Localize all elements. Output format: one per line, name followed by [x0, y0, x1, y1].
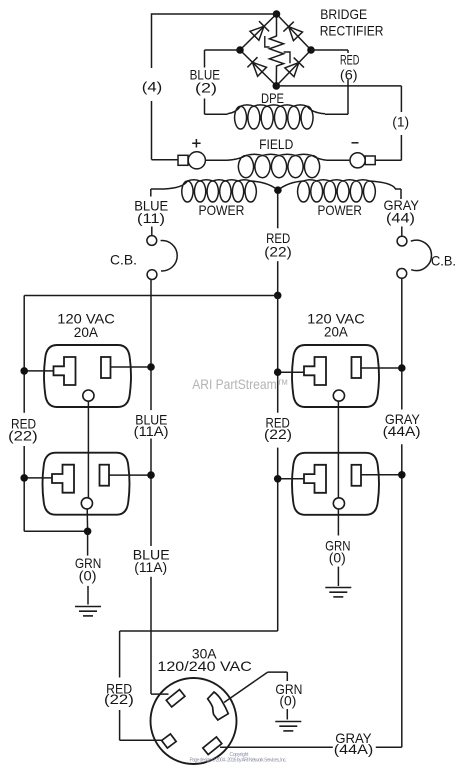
wire J4 ground down: [337, 509, 339, 536]
wire 4 vertical lower: [151, 101, 153, 160]
svg-text:RECTIFIER: RECTIFIER: [320, 22, 384, 38]
wire ground horizontal: [268, 671, 288, 673]
outlet J4 (right bottom 120V 20A) hot slot: [352, 465, 362, 486]
outlet J3 (right top 120V 20A) hot slot: [352, 357, 362, 378]
wire 4 to FIELD + terminal: [152, 159, 179, 161]
wire GRN right to ground: [337, 567, 339, 586]
FIELD - terminal square: [365, 156, 375, 165]
inductor FIELD coil: [227, 154, 327, 178]
resistor right tap hook: [284, 52, 290, 63]
wire FIELD coil to - terminal: [327, 159, 349, 161]
receptacle slot bottom-center: [203, 737, 222, 755]
wire 2 to DPE coil: [205, 113, 228, 115]
receptacle slot bottom-left (hot Y): [162, 734, 177, 748]
wire 1: bridge - to right: [276, 85, 401, 87]
svg-text:FIELD: FIELD: [259, 137, 293, 152]
wire POWER right coil exit: [369, 181, 401, 189]
svg-text:(2): (2): [195, 81, 217, 96]
svg-text:C.B.: C.B.: [431, 254, 456, 269]
svg-text:120/240 VAC: 120/240 VAC: [157, 659, 252, 674]
circuit breaker CB2 arc: [411, 240, 432, 270]
ground symbol left: [75, 606, 101, 608]
wire RED left rail upper: [23, 296, 25, 413]
svg-text:(22): (22): [264, 245, 292, 260]
wire center rail to J3 neutral: [278, 371, 304, 373]
svg-text:POWER: POWER: [199, 203, 245, 218]
outlet J2 (left bottom 120V 20A) outline: [43, 453, 130, 515]
svg-text:(6): (6): [340, 67, 358, 82]
node on RED rail at J2: [20, 474, 28, 482]
diode D2 (top-right edge, cathode to + node): [283, 22, 293, 32]
circuit breaker CB2 top contact: [397, 236, 407, 246]
outlet J1 (left top 120V 20A) hot slot: [101, 357, 111, 378]
wire BLUE 11A rail upper: [150, 280, 152, 411]
node: bridge AC right vertex: [307, 46, 315, 54]
wire RED 22 center rail upper: [277, 296, 279, 413]
svg-text:(0): (0): [279, 694, 296, 709]
receptacle slot top-left (hot X): [166, 690, 185, 707]
wire RED 22 down lower: [119, 710, 121, 740]
svg-text:(11): (11): [137, 211, 165, 226]
diode D1 (top-left edge, cathode to + node): [259, 21, 269, 31]
svg-text:(44A): (44A): [334, 742, 374, 757]
resistor left tap hook: [265, 36, 270, 47]
diode D4 (bottom-right edge): [294, 58, 304, 68]
FIELD - terminal circle: [350, 153, 365, 168]
outlet J2 (left bottom 120V 20A) ground pin hole: [81, 498, 92, 509]
wire RED 22 from center tap: [277, 194, 279, 229]
node: power winding center tap: [274, 186, 282, 194]
svg-text:(44A): (44A): [383, 424, 421, 439]
svg-text:ARI PartStream™: ARI PartStream™: [192, 377, 289, 392]
wire RED left rail lower: [23, 446, 25, 531]
wire GRAY 44A bottom left part: [220, 746, 333, 748]
wire J1 hot to BLUE rail: [111, 366, 152, 368]
outlet J3 (right top 120V 20A) outline: [292, 345, 379, 407]
wire GRAY 44A bottom right part: [376, 746, 402, 748]
wire GRN left to ground: [87, 586, 89, 605]
receptacle slot top-right (neutral, L-shaped): [208, 692, 229, 720]
FIELD + terminal circle: [188, 152, 205, 169]
wire BLUE 11 upper: [150, 189, 152, 197]
svg-text:Page design © 2004 - 2016 by A: Page design © 2004 - 2016 by ARI Network…: [190, 756, 287, 763]
circuit breaker CB1 bottom contact: [147, 270, 157, 280]
wire 4 vertical upper: [151, 13, 153, 68]
wire 2: bridge AC-left: [205, 49, 241, 51]
wire GRAY 44 to C.B.: [401, 227, 403, 236]
wire rail to J1 neutral: [24, 370, 53, 372]
node: bridge - (bottom vertex): [273, 82, 281, 90]
node: left ground junction: [84, 528, 92, 536]
wire center tap to POWER right coil: [278, 181, 304, 190]
plus sign at FIELD +: [192, 139, 200, 148]
node on RED center rail at J4: [274, 475, 282, 483]
svg-text:20A: 20A: [324, 324, 349, 339]
node on GRAY rail at J3: [398, 364, 406, 372]
wire BLUE 11A rail lower: [150, 577, 152, 694]
outlet J4 (right bottom 120V 20A) outline: [292, 453, 379, 515]
svg-text:(44): (44): [386, 211, 415, 226]
outlet J3 (right top 120V 20A) ground pin hole: [333, 390, 344, 401]
svg-text:(0): (0): [329, 550, 346, 565]
wire J1 ground to J2 ground: [87, 401, 89, 498]
wire RED rail horizontal: [24, 295, 278, 297]
node on RED center rail at J3: [274, 368, 282, 376]
circuit breaker CB1 top contact: [147, 236, 157, 246]
wire rail to J2 neutral: [24, 477, 52, 479]
FIELD + terminal square: [178, 155, 188, 165]
wire 2 vertical upper: [204, 50, 206, 68]
inductor POWER winding left: [164, 180, 256, 202]
node: bridge + (top vertex): [273, 10, 281, 18]
wire POWER left stub: [151, 188, 164, 190]
ground symbol right: [325, 587, 351, 589]
inductor DPE coil: [228, 105, 326, 129]
minus sign at FIELD -: [352, 142, 359, 144]
bridge rectifier diamond: [240, 14, 277, 50]
svg-text:(0): (0): [79, 569, 97, 584]
outlet J1 (left top 120V 20A) outline: [44, 345, 131, 407]
svg-text:POWER: POWER: [318, 203, 362, 218]
svg-text:(22): (22): [8, 428, 38, 443]
svg-text:20A: 20A: [74, 325, 99, 340]
wire 1 vertical upper: [400, 86, 402, 112]
wire BLUE to receptacle slot: [151, 693, 169, 695]
outlet J3 (right top 120V 20A) neutral T-slot: [304, 357, 326, 385]
outlet J1 (left top 120V 20A) ground pin hole: [83, 390, 94, 401]
ground symbol plug: [275, 721, 301, 723]
inductor POWER winding right: [298, 180, 376, 202]
wire RED 22 to receptacle: [120, 739, 163, 741]
wire J2 ground down: [86, 509, 88, 531]
svg-text:DPE: DPE: [261, 91, 284, 106]
resistor inside bridge: [269, 14, 283, 86]
wire POWER left coil to center tap: [251, 181, 278, 190]
node on GRAY rail at J4: [398, 471, 406, 479]
wire RED 22 down upper: [119, 631, 121, 678]
diode D3 (bottom-left edge): [247, 57, 257, 67]
svg-text:C.B.: C.B.: [110, 253, 137, 268]
wire RED rail to ground junction: [24, 530, 87, 532]
wire 2 vertical lower: [204, 99, 206, 115]
outlet J2 (left bottom 120V 20A) neutral T-slot: [52, 465, 74, 493]
svg-text:BRIDGE: BRIDGE: [320, 6, 367, 22]
wire BLUE 11A rail mid: [150, 439, 152, 547]
wire J3 hot to GRAY rail: [361, 367, 402, 369]
node on BLUE rail at J2: [147, 471, 155, 479]
wire to GRN left: [87, 531, 89, 555]
wire 4: bridge + to left: [152, 13, 277, 15]
node: RED rail junction: [274, 292, 282, 300]
node on RED rail at J1: [20, 367, 28, 375]
wire ground down: [286, 672, 288, 681]
wire 6: bridge AC-right: [311, 49, 348, 51]
circuit breaker CB1 arc: [161, 241, 178, 271]
wire center rail to J4 neutral: [278, 478, 304, 480]
wire 6 to DPE coil right: [325, 113, 348, 115]
wire 1 to FIELD - terminal: [375, 159, 401, 161]
twist-lock receptacle 30A body: [151, 678, 237, 764]
wire J4 hot to GRAY rail: [361, 474, 402, 476]
wire FIELD + to coil: [205, 159, 227, 161]
svg-text:(22): (22): [264, 427, 292, 442]
svg-text:RED: RED: [340, 53, 360, 68]
wire GRAY 44A rail upper: [401, 278, 403, 409]
wire 6 stub: [347, 50, 349, 53]
wire RED 22 bottom horizontal: [120, 630, 278, 632]
wire receptacle ground diagonal: [224, 672, 268, 702]
wire BLUE 11 to C.B.: [151, 227, 153, 236]
svg-text:(1): (1): [392, 114, 409, 129]
wire J2 hot to BLUE rail: [109, 474, 151, 476]
svg-text:(11A): (11A): [134, 560, 167, 575]
circuit breaker CB2 bottom contact: [397, 269, 407, 279]
wire GRAY 44 upper: [400, 189, 402, 199]
wire RED 22 to rail junction: [277, 261, 279, 295]
outlet J2 (left bottom 120V 20A) hot slot: [100, 465, 110, 486]
wire 6 vertical: [347, 80, 349, 115]
wire 1 vertical lower: [400, 135, 402, 160]
svg-text:(11A): (11A): [134, 424, 169, 439]
svg-text:(22): (22): [104, 692, 134, 707]
wire GRAY 44A rail lower: [401, 444, 403, 747]
wire J3 ground to J4 ground: [337, 401, 339, 498]
outlet J4 (right bottom 120V 20A) ground pin hole: [333, 498, 344, 509]
svg-text:(4): (4): [142, 80, 163, 95]
node: bridge AC left vertex: [236, 46, 244, 54]
outlet J4 (right bottom 120V 20A) neutral T-slot: [304, 465, 326, 493]
outlet J1 (left top 120V 20A) neutral T-slot: [54, 357, 76, 385]
wire GRN plug to ground: [286, 709, 288, 720]
node on BLUE rail at J1: [147, 363, 155, 371]
wire RED 22 center rail lower: [277, 448, 279, 631]
